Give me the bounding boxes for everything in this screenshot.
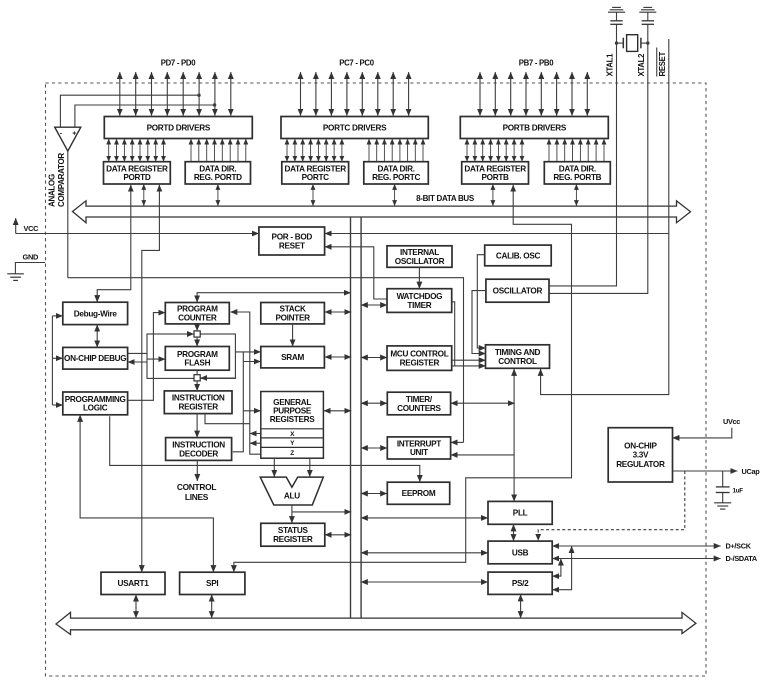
svg-text:DATA REGISTER: DATA REGISTER — [284, 164, 346, 173]
ground symbol below 1uF capacitor — [714, 503, 731, 509]
overline on RESET label — [656, 48, 658, 77]
PORTD driver-register bit 6 arrow — [155, 139, 157, 162]
block POR - BOD RESET — [259, 227, 325, 255]
arrow registers to ALU right input — [309, 458, 311, 477]
svg-text:PORTC DRIVERS: PORTC DRIVERS — [323, 123, 387, 132]
svg-text:STACK: STACK — [280, 305, 306, 314]
block USART1 — [101, 572, 165, 594]
arrow PROGRAM COUNTER to mux — [196, 324, 198, 331]
svg-text:DATA REGISTER: DATA REGISTER — [464, 164, 526, 173]
block STATUS REGISTER — [261, 523, 325, 546]
svg-text:PORTD: PORTD — [123, 173, 151, 182]
arrow flash block to ON-CHIP DEBUG — [128, 361, 147, 363]
block INSTRUCTION DECODER — [166, 438, 232, 461]
block STACK POINTER — [261, 303, 325, 324]
svg-text:COUNTERS: COUNTERS — [397, 404, 441, 413]
crystal Y1 body — [627, 35, 638, 52]
block INSTRUCTION REGISTER — [164, 391, 232, 414]
XTAL1 wire into oscillator — [549, 24, 617, 286]
PORTC dir-reg bit 1 arrow (up) — [376, 139, 378, 162]
arrow control rail to INTERRUPT UNIT right — [451, 441, 464, 443]
port pin PC3 bidirectional arrow — [361, 72, 363, 116]
arrow Debug-Wire to ON-CHIP DEBUG — [96, 325, 98, 348]
DATA REGISTER PORTC to bus arrow — [312, 184, 314, 206]
svg-text:OSCILLATOR: OSCILLATOR — [493, 287, 543, 296]
svg-text:DATA DIR.: DATA DIR. — [559, 164, 596, 173]
port pin PC2 bidirectional arrow — [377, 72, 379, 116]
PORTD dir-reg bit 5 arrow (up) — [229, 139, 231, 162]
XTAL2 wire into oscillator — [549, 24, 648, 293]
svg-text:INTERRUPT: INTERRUPT — [397, 439, 441, 448]
port pin PB6 bidirectional arrow — [494, 72, 496, 116]
block PORTB DRIVERS — [460, 117, 608, 139]
svg-text:8-BIT DATA BUS: 8-BIT DATA BUS — [416, 194, 475, 203]
arrow Y register to address line — [250, 442, 261, 444]
PORTC dir-reg bit 4 arrow (up) — [399, 139, 401, 162]
svg-text:PORTB DRIVERS: PORTB DRIVERS — [503, 123, 567, 132]
arrow rail to PS/2 — [361, 581, 488, 583]
arrow rail to PLL — [361, 517, 488, 519]
block PLL — [488, 501, 552, 524]
port pin PB7 bidirectional arrow — [479, 72, 481, 116]
block DATA REGISTER PORTD — [104, 162, 171, 184]
block TIMING AND CONTROL — [486, 345, 550, 369]
program memory outer block — [147, 334, 235, 378]
svg-text:COMPARATOR: COMPARATOR — [57, 153, 66, 207]
block PS/2 — [488, 572, 552, 594]
svg-text:ALU: ALU — [284, 491, 300, 500]
svg-text:Z: Z — [290, 450, 294, 457]
block EEPROM — [387, 482, 449, 504]
PORTC dir-reg bit 7 arrow (up) — [422, 139, 424, 162]
svg-text:REGISTER: REGISTER — [178, 403, 218, 412]
PORTD driver-register bit 4 arrow — [139, 139, 141, 162]
wire ground to XTAL1 capacitor — [616, 12, 618, 20]
wire OSCILLATOR to TIMING AND CONTROL — [472, 291, 486, 354]
arrow rail to SRAM 2 — [243, 361, 260, 363]
block GENERAL PURPOSE REGISTERS with X Y Z — [261, 392, 324, 459]
arrow rail to GENERAL PURPOSE REGISTERS — [243, 410, 260, 412]
block TIMER/COUNTERS — [387, 392, 450, 415]
svg-text:INSTRUCTION: INSTRUCTION — [172, 441, 225, 450]
arrow rail to ON-CHIP DEBUG left — [52, 357, 62, 359]
arrow flash block to PROGRAM FLASH left — [147, 358, 165, 360]
svg-text:REGULATOR: REGULATOR — [616, 460, 665, 469]
arrow rail to SRAM 1 — [243, 351, 260, 353]
svg-text:SRAM: SRAM — [281, 353, 304, 362]
block SPI — [180, 572, 245, 594]
svg-text:PROGRAM: PROGRAM — [177, 350, 218, 359]
svg-text:USB: USB — [512, 548, 529, 557]
PORTC dir-reg bit 2 arrow (up) — [383, 139, 385, 162]
block USB — [488, 541, 552, 564]
port pin PC4 bidirectional arrow — [346, 72, 348, 116]
RESET wire down right side — [541, 39, 669, 395]
arrow ALU to STATUS REGISTER — [291, 505, 293, 523]
block DATA DIR. REG. PORTC — [364, 162, 429, 184]
8-bit data bus band (top, double-ended block arrow) — [73, 201, 691, 223]
arrow MCU CONTROL REGISTER to TIMING (line 3) — [452, 359, 486, 361]
PORTD dir-reg bit 6 arrow (up) — [237, 139, 239, 162]
port pin PB5 bidirectional arrow — [510, 72, 512, 116]
svg-text:REGISTER: REGISTER — [273, 535, 313, 544]
wire PC address vertical — [230, 312, 260, 454]
svg-text:USART1: USART1 — [118, 579, 150, 588]
arrow INSTRUCTION DECODER to control lines — [196, 460, 198, 481]
block DATA REGISTER PORTB — [462, 162, 529, 184]
svg-text:ON-CHIP: ON-CHIP — [624, 442, 657, 451]
PORTB driver-register bit 4 arrow — [497, 139, 499, 162]
wire PS/2 to D+/SCK line — [552, 546, 571, 590]
block DATA REGISTER PORTC — [282, 162, 349, 184]
block PORTD DRIVERS — [104, 117, 252, 139]
svg-text:PORTB: PORTB — [482, 173, 510, 182]
svg-text:CONTROL: CONTROL — [177, 482, 216, 492]
PORTB dir-reg bit 4 arrow (up) — [579, 139, 581, 162]
PORTB driver-register bit 5 arrow — [505, 139, 507, 162]
block PROGRAMMING LOGIC — [63, 392, 128, 415]
junction XTAL2-crystal — [646, 41, 649, 44]
ground symbol above XTAL2 capacitor — [639, 7, 656, 12]
block MCU CONTROL REGISTER — [387, 346, 452, 371]
port pin PB0 bidirectional arrow — [586, 72, 588, 116]
svg-text:DECODER: DECODER — [179, 449, 218, 458]
block INTERRUPT UNIT — [387, 437, 450, 459]
arrow MCU CONTROL REGISTER to TIMING (line 4) — [452, 365, 486, 367]
analog comparator output wire down to control line — [67, 151, 69, 278]
svg-text:PD7 - PD0: PD7 - PD0 — [161, 59, 197, 68]
svg-text:TIMER/: TIMER/ — [406, 395, 433, 404]
D+/SCK wire from USB — [552, 545, 720, 547]
svg-text:PROGRAMMING: PROGRAMMING — [65, 395, 126, 404]
PORTC driver-register bit 1 arrow — [294, 139, 296, 162]
arrow INTERNAL OSCILLATOR to WATCHDOG TIMER — [418, 267, 420, 288]
wire UCap to capacitor — [722, 471, 724, 487]
PORTD dir-reg bit 1 arrow (up) — [198, 139, 200, 162]
PORTC driver-register bit 5 arrow — [325, 139, 327, 162]
svg-text:CONTROL: CONTROL — [498, 357, 537, 366]
svg-text:VCC: VCC — [24, 224, 40, 233]
decoder rail to SRAM/registers — [233, 352, 244, 452]
PORTB driver-register bit 6 arrow — [513, 139, 515, 162]
analog comparator plus input wire with tap on PD7 — [75, 105, 215, 127]
port pin PD3 bidirectional arrow — [182, 72, 184, 116]
analog comparator minus input wire with tap on PD6 — [60, 95, 199, 126]
svg-text:3.3V: 3.3V — [633, 451, 649, 460]
PORTB dir-reg bit 6 arrow (up) — [595, 139, 597, 162]
wire IR feedback to PC — [205, 414, 250, 424]
GND stub wire — [15, 263, 45, 274]
arrow rail to PROGRAMMING LOGIC left — [52, 404, 62, 406]
svg-text:FLASH: FLASH — [184, 359, 210, 368]
PORTC driver-register bit 7 arrow — [341, 139, 343, 162]
svg-text:UNIT: UNIT — [410, 448, 428, 457]
block DATA DIR. REG. PORTD — [185, 162, 250, 184]
wire PROGRAMMING LOGIC bottom to SPI top — [80, 415, 213, 572]
PORTB driver-register bit 0 arrow — [466, 139, 468, 162]
arrow rail to EEPROM — [361, 493, 387, 495]
svg-text:UCap: UCap — [742, 467, 761, 476]
svg-text:ON-CHIP DEBUG: ON-CHIP DEBUG — [64, 354, 126, 363]
arrow SPI to bottom bus — [211, 595, 213, 618]
mux square below PROGRAM FLASH — [194, 375, 200, 381]
PORTC dir-reg bit 0 arrow (up) — [368, 139, 370, 162]
arrow SRAM to rail — [325, 356, 352, 358]
UVcc wire into regulator — [673, 428, 732, 438]
svg-text:1uF: 1uF — [733, 488, 744, 495]
wire PROGRAMMING LOGIC right to PROGRAM COUNTER — [128, 313, 166, 401]
arrow PS/2 to bottom bus — [520, 595, 522, 619]
block PROGRAM FLASH — [165, 347, 229, 371]
svg-text:EEPROM: EEPROM — [402, 489, 436, 498]
arrow X register to address line — [250, 433, 261, 435]
junction XTAL1-crystal — [615, 41, 618, 44]
arrow PLL to USB — [513, 524, 515, 541]
block ON-CHIP DEBUG — [63, 347, 128, 369]
svg-text:PROGRAM: PROGRAM — [177, 305, 218, 314]
block OSCILLATOR — [486, 279, 549, 302]
svg-text:REG. PORTD: REG. PORTD — [194, 173, 242, 182]
svg-text:INSTRUCTION: INSTRUCTION — [172, 394, 225, 403]
svg-text:SPI: SPI — [206, 579, 218, 588]
wire crystal right plate to XTAL2 — [641, 42, 648, 44]
svg-text:PC7 - PC0: PC7 - PC0 — [339, 59, 375, 68]
svg-text:POR - BOD: POR - BOD — [272, 233, 313, 242]
wire bus to PROGRAM COUNTER — [197, 293, 351, 303]
port pin PB1 bidirectional arrow — [571, 72, 573, 116]
CPU internal bus left rail — [350, 217, 352, 618]
svg-text:DATA DIR.: DATA DIR. — [378, 164, 415, 173]
port pin PC7 bidirectional arrow — [300, 72, 302, 116]
PORTB driver-register bit 2 arrow — [482, 139, 484, 162]
DATA DIR REG PORTB to bus arrow — [575, 184, 577, 206]
port pin PD0 bidirectional arrow — [230, 72, 232, 116]
PORTC driver-register bit 0 arrow — [286, 139, 288, 162]
junction on PD7 line — [213, 103, 216, 106]
block Debug-Wire — [63, 302, 128, 324]
svg-text:POINTER: POINTER — [275, 314, 310, 323]
PORTC driver-register bit 3 arrow — [310, 139, 312, 162]
port pin PC1 bidirectional arrow — [392, 72, 394, 116]
svg-text:REGISTERS: REGISTERS — [270, 415, 315, 424]
PORTD dir-reg bit 3 arrow (up) — [214, 139, 216, 162]
arrow rail to INTERRUPT UNIT — [361, 447, 387, 449]
PORTB dir-reg bit 2 arrow (up) — [564, 139, 566, 162]
wire PROGRAM FLASH to bottom mux — [196, 370, 198, 375]
D-/SDATA wire from USB — [552, 558, 720, 560]
PORTD driver-register bit 0 arrow — [108, 139, 110, 162]
arrow registers to ALU left input — [273, 458, 275, 477]
PORTB dir-reg bit 3 arrow (up) — [572, 139, 574, 162]
PORTB driver-register bit 3 arrow — [490, 139, 492, 162]
PORTD driver-register bit 2 arrow — [123, 139, 125, 162]
PORTD dir-reg bit 2 arrow (up) — [206, 139, 208, 162]
port pin PD5 bidirectional arrow — [151, 72, 153, 116]
arrow timing vertical to INTERRUPT UNIT — [451, 454, 514, 456]
PORTB dir-reg bit 5 arrow (up) — [587, 139, 589, 162]
vertical control rail segment — [463, 360, 465, 442]
data bus band (bottom, double-ended block arrow) — [56, 612, 696, 634]
svg-text:MCU CONTROL: MCU CONTROL — [390, 350, 448, 359]
arrow rail to Debug-Wire left — [52, 315, 62, 317]
svg-text:LINES: LINES — [185, 492, 209, 502]
svg-text:PORTC: PORTC — [302, 173, 330, 182]
wire ON-CHIP DEBUG to flash block — [128, 352, 147, 354]
PORTD dir-reg bit 7 arrow (up) — [245, 139, 247, 162]
svg-text:DATA REGISTER: DATA REGISTER — [106, 164, 168, 173]
block PORTC DRIVERS — [281, 117, 428, 139]
wire PORTB register chain to SPI top — [234, 185, 572, 572]
capacitor 1uF — [716, 487, 730, 493]
arrow into top mux along flash block edge — [160, 333, 194, 335]
arrow rail to USB — [361, 552, 488, 554]
control wire PROGRAMMING LOGIC to EEPROM — [110, 416, 420, 482]
arrow registers to rail — [324, 410, 352, 412]
PORTD dir-reg bit 4 arrow (up) — [221, 139, 223, 162]
port pin PD2 bidirectional arrow — [198, 72, 200, 116]
PORTD driver-register bit 7 arrow — [163, 139, 165, 162]
arrow TIMER/COUNTERS to timing vertical — [451, 402, 515, 404]
port pin PC0 bidirectional arrow — [408, 72, 410, 116]
VCC pin arrow — [15, 218, 17, 233]
ALU block (trapezoid with notch) — [260, 477, 323, 505]
block SRAM — [261, 347, 325, 368]
PORTD dir-reg bit 0 arrow (up) — [190, 139, 192, 162]
arrow rail to WATCHDOG TIMER — [361, 304, 387, 306]
crystal right plate — [640, 38, 642, 49]
svg-text:+: + — [72, 131, 76, 138]
svg-text:REGISTER: REGISTER — [400, 358, 440, 367]
port pin PC6 bidirectional arrow — [315, 72, 317, 116]
svg-text:PS/2: PS/2 — [512, 579, 529, 588]
block DATA DIR. REG. PORTB — [544, 162, 610, 184]
svg-text:COUNTER: COUNTER — [178, 314, 217, 323]
arrow PORTD register chain to USART1 — [142, 185, 160, 572]
arrow into bottom mux along flash block edge — [200, 377, 235, 379]
mux square above PROGRAM FLASH — [194, 331, 200, 337]
port pin PD7 bidirectional arrow — [119, 72, 121, 116]
port pin PD6 bidirectional arrow — [135, 72, 137, 116]
arrow STACK POINTER to SRAM — [292, 324, 294, 346]
ground symbol above XTAL1 capacitor — [608, 7, 625, 12]
DATA REGISTER PORTD to bus arrow — [143, 184, 145, 206]
port pin PB2 bidirectional arrow — [556, 72, 558, 116]
svg-text:DATA DIR.: DATA DIR. — [199, 164, 236, 173]
svg-text:REG. PORTB: REG. PORTB — [553, 173, 601, 182]
CPU internal bus right rail — [360, 217, 362, 618]
arrow ALU output to rail — [292, 511, 351, 513]
svg-text:PB7 - PB0: PB7 - PB0 — [519, 59, 555, 68]
wire ground to XTAL2 capacitor — [647, 12, 649, 20]
analog/control line into TIMING AND CONTROL — [68, 278, 464, 361]
dashed wire regulator to USB — [538, 471, 685, 541]
wire crystal left plate to XTAL1 — [617, 42, 624, 44]
VCC supply wire to POR-BOD — [16, 233, 259, 235]
wire RESET line to POR-BOD right edge — [325, 233, 669, 235]
svg-text:TIMER: TIMER — [407, 301, 431, 310]
port pin PD4 bidirectional arrow — [166, 72, 168, 116]
arrow rail to TIMER/COUNTERS — [361, 402, 387, 404]
PORTC dir-reg bit 3 arrow (up) — [391, 139, 393, 162]
wire WATCHDOG right to TIMING feed — [452, 302, 455, 366]
capacitor on XTAL1 — [610, 21, 622, 25]
arrow STATUS REGISTER to rail — [325, 534, 352, 536]
wire PS/2 to D-/SDATA line — [552, 559, 561, 577]
PORTD driver-register bit 3 arrow — [131, 139, 133, 162]
block INTERNAL OSCILLATOR — [387, 246, 452, 267]
wire from PORTD register down to Debug-Wire — [97, 185, 131, 302]
svg-text:Debug-Wire: Debug-Wire — [74, 309, 118, 318]
PORTC dir-reg bit 5 arrow (up) — [407, 139, 409, 162]
arrow USART1 to bottom bus — [135, 595, 137, 618]
chip boundary dashed border — [46, 83, 707, 676]
PORTD driver-register bit 5 arrow — [147, 139, 149, 162]
svg-text:RESET: RESET — [658, 51, 667, 76]
svg-text:XTAL2: XTAL2 — [637, 53, 646, 77]
arrow TIMING to PLL vertical — [513, 369, 515, 501]
block ON-CHIP 3.3V REGULATOR — [608, 428, 672, 482]
svg-text:INTERNAL: INTERNAL — [400, 248, 439, 257]
port pin PB4 bidirectional arrow — [525, 72, 527, 116]
arrow rail to MCU CONTROL REGISTER — [361, 357, 387, 359]
svg-text:XTAL1: XTAL1 — [606, 53, 615, 77]
svg-text:LOGIC: LOGIC — [83, 404, 108, 413]
svg-text:D+/SCK: D+/SCK — [726, 542, 752, 551]
op-amp analog comparator triangle — [55, 127, 81, 151]
svg-text:D-/SDATA: D-/SDATA — [726, 554, 758, 563]
PORTC driver-register bit 6 arrow — [333, 139, 335, 162]
svg-text:TIMING AND: TIMING AND — [495, 348, 541, 357]
port pin PB3 bidirectional arrow — [540, 72, 542, 116]
block PROGRAM COUNTER — [165, 303, 229, 324]
block CALIB. OSC — [485, 245, 552, 266]
arrow INSTRUCTION REGISTER to INSTRUCTION DECODER — [196, 414, 198, 438]
capacitor on XTAL2 — [642, 21, 654, 25]
crystal left plate — [622, 38, 624, 49]
svg-text:STATUS: STATUS — [278, 526, 309, 535]
svg-text:PORTD DRIVERS: PORTD DRIVERS — [147, 123, 211, 132]
PORTB dir-reg bit 0 arrow (up) — [548, 139, 550, 162]
arrow STACK POINTER to rail — [325, 311, 352, 313]
wire POR-BOD right to WATCHDOG left — [325, 247, 388, 299]
junction on PD6 line — [197, 94, 200, 97]
svg-text:UVcc: UVcc — [723, 417, 740, 426]
UCap wire from regulator — [673, 470, 738, 472]
PORTD driver-register bit 1 arrow — [116, 139, 118, 162]
svg-text:WATCHDOG: WATCHDOG — [397, 292, 443, 301]
arrow mux to PROGRAM FLASH — [196, 337, 198, 346]
ground symbol at GND pin — [7, 274, 24, 281]
svg-text:RESET: RESET — [279, 241, 305, 250]
PORTB driver-register bit 1 arrow — [474, 139, 476, 162]
svg-text:CALIB. OSC: CALIB. OSC — [496, 251, 541, 260]
DATA REGISTER PORTB to bus arrow — [492, 184, 494, 206]
svg-text:REG. PORTC: REG. PORTC — [372, 173, 420, 182]
svg-text:OSCILLATOR: OSCILLATOR — [395, 257, 445, 266]
PORTB driver-register bit 7 arrow — [521, 139, 523, 162]
DATA DIR REG PORTD to bus arrow — [217, 184, 219, 206]
DATA DIR REG PORTC to bus arrow — [394, 184, 396, 206]
svg-text:GND: GND — [23, 253, 39, 262]
PORTC driver-register bit 4 arrow — [317, 139, 319, 162]
arrow mux to INSTRUCTION REGISTER — [196, 381, 198, 391]
wire capacitor to ground — [722, 493, 724, 503]
port pin PC5 bidirectional arrow — [330, 72, 332, 116]
debug service vertical rail — [51, 316, 53, 405]
block WATCHDOG TIMER — [387, 289, 452, 313]
PORTB dir-reg bit 7 arrow (up) — [603, 139, 605, 162]
wire CALIB OSC to TIMING AND CONTROL — [477, 255, 485, 348]
